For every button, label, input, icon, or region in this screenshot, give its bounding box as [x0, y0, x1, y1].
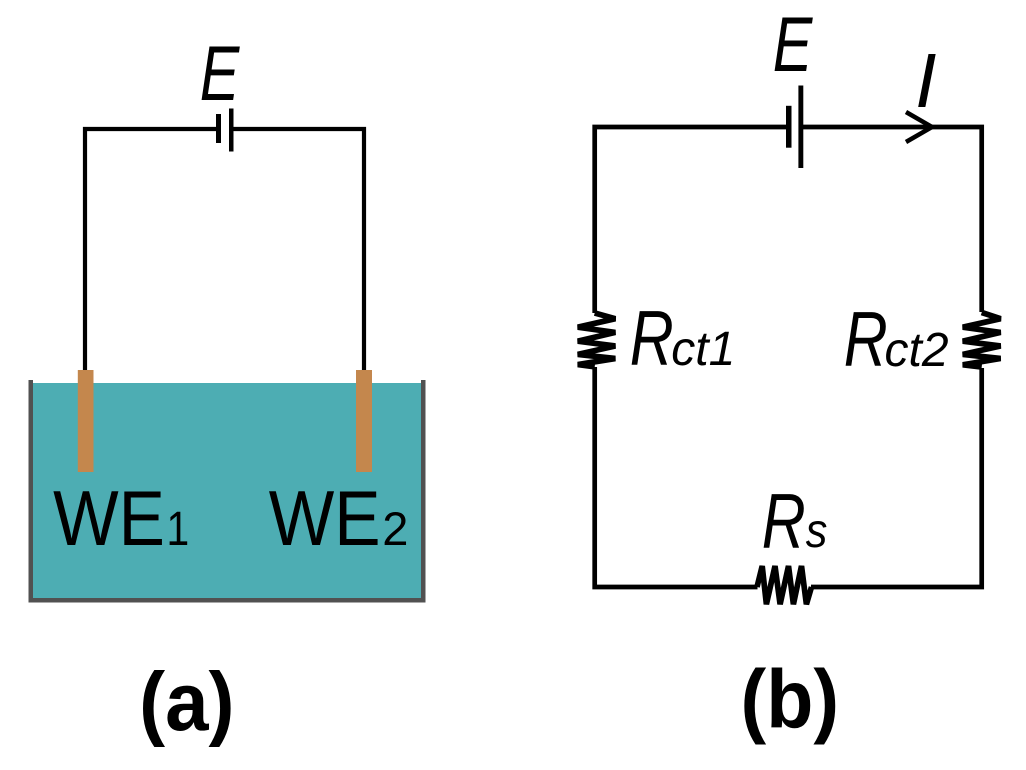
svg-text:R: R — [630, 295, 674, 382]
wire: panel (a) top-left segment and left drop to electrode — [85, 129, 216, 372]
wire: panel (b) top-left corner to left resistor — [595, 127, 786, 313]
current arrow head on top wire — [906, 112, 932, 142]
battery E (panel b) long plate — [798, 86, 803, 169]
wire: panel (b) right resistor up and top to battery — [803, 127, 982, 312]
svg-text:1: 1 — [167, 503, 190, 556]
svg-text:(b): (b) — [741, 652, 840, 745]
svg-text:R: R — [762, 478, 806, 565]
electrode WE2 (right, tan) — [356, 370, 372, 472]
svg-text:E: E — [773, 0, 813, 88]
svg-text:(a): (a) — [139, 656, 234, 749]
svg-text:R: R — [844, 296, 888, 383]
electrode WE1 (left, tan) — [78, 370, 94, 472]
wire: panel (b) left resistor down and bottom to Rs — [595, 367, 758, 587]
svg-text:WE: WE — [269, 474, 381, 562]
svg-text:WE: WE — [53, 474, 165, 562]
battery E (panel a) long plate — [229, 109, 234, 152]
svg-text:2: 2 — [382, 502, 408, 555]
beaker solution (teal) — [29, 383, 421, 598]
beaker left wall — [29, 380, 34, 603]
battery E (panel b) short plate — [786, 106, 792, 148]
svg-text:s: s — [806, 504, 828, 558]
svg-text:I: I — [915, 38, 936, 124]
beaker bottom wall — [29, 598, 426, 603]
svg-text:ct1: ct1 — [671, 323, 735, 376]
beaker right wall — [421, 380, 426, 603]
svg-text:ct2: ct2 — [885, 324, 949, 377]
resistor Rct2 (right vertical zigzag) — [963, 313, 1001, 368]
wire: panel (b) Rs to bottom-right corner and up to right resistor — [811, 368, 982, 587]
svg-text:E: E — [200, 29, 240, 117]
battery E (panel a) short plate — [216, 114, 221, 143]
wire: panel (a) top-right segment and right drop to electrode — [233, 129, 364, 372]
resistor Rs (bottom horizontal zigzag) — [757, 566, 812, 604]
resistor Rct1 (left vertical zigzag) — [578, 313, 616, 367]
